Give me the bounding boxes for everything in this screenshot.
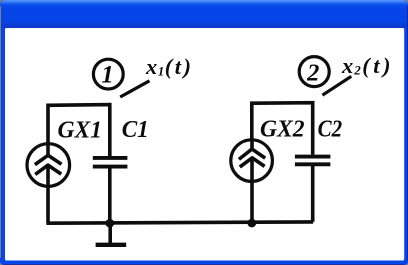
node 1 circle: [93, 59, 123, 89]
current source GX2: [231, 140, 273, 182]
capacitor C1 bottom plate: [93, 165, 128, 169]
title bar: [0, 0, 408, 28]
svg-text:GX1: GX1: [58, 117, 103, 143]
capacitor C2 bottom plate: [295, 162, 331, 166]
GX1 chevron upper: [35, 155, 62, 164]
GX1 arrow shaft / lower branch wire: [46, 166, 50, 223]
junction dot right: [248, 219, 257, 228]
capacitor C1 top plate: [93, 156, 128, 160]
bottom wire: [46, 222, 313, 223]
current source GX1: [27, 144, 70, 187]
node 2 circle: [299, 57, 329, 87]
wire right loop top (left branch + top wire + cap branch upper): [252, 103, 313, 155]
svg-text:x2(t): x2(t): [341, 53, 391, 78]
frame bottom edge: [4, 264, 404, 265]
svg-text:C1: C1: [122, 117, 149, 143]
svg-text:1: 1: [101, 62, 114, 89]
node 2 pointer line: [322, 76, 351, 95]
node 1 pointer line: [120, 81, 149, 97]
GX2 chevron lower: [240, 158, 265, 167]
frame right edge: [407, 6, 408, 260]
ground stub: [108, 223, 112, 243]
GX1 chevron lower: [35, 165, 61, 174]
GX2 chevron upper: [239, 149, 265, 159]
GX2 arrow shaft / lower branch wire: [250, 159, 254, 223]
wire C2 lower stub: [311, 165, 315, 222]
wire C1 lower stub: [108, 167, 112, 222]
capacitor C2 top plate: [295, 155, 331, 159]
junction dot left: [106, 219, 115, 228]
wire left loop top (left branch + top wire + cap branch upper): [48, 105, 110, 157]
svg-text:2: 2: [306, 59, 319, 86]
svg-text:x1(t): x1(t): [145, 54, 191, 79]
GX1 arrow stub: [46, 144, 50, 157]
svg-text:GX2: GX2: [260, 117, 305, 143]
frame left edge: [0, 6, 2, 258]
svg-text:C2: C2: [318, 117, 343, 143]
ground bar: [96, 243, 127, 247]
GX2 arrow stub: [250, 140, 254, 150]
